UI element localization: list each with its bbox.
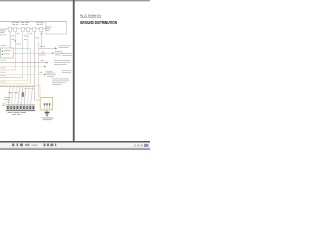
status bar background	[0, 143, 150, 148]
ground symbol G201	[45, 112, 50, 116]
label smudge mid	[39, 55, 53, 74]
splice knot S211	[22, 93, 25, 97]
wire: vertical drop 4 red	[27, 32, 29, 81]
connector C4 box	[26, 27, 29, 31]
pin bullet 2	[2, 54, 3, 55]
svg-text:GROUND DISTRIBUTION: GROUND DISTRIBUTION	[80, 20, 117, 25]
wire: vertical drop 3 black	[22, 32, 24, 78]
wire: feeder yellow 3	[0, 80, 28, 82]
connector C1 box	[9, 27, 12, 31]
junction dot	[15, 40, 17, 42]
wire into ground	[46, 110, 48, 112]
wire: drop 6 upper with elbow to splice arrow	[39, 32, 56, 49]
wire drops row1 to row2	[8, 87, 32, 105]
label under bus	[8, 112, 27, 115]
connector C5 box	[33, 27, 36, 31]
splice arrow S1	[55, 47, 57, 49]
label cluster right C	[54, 60, 71, 64]
label smudge in green box	[4, 50, 11, 54]
label under ground	[42, 118, 54, 121]
wire: feeder purple 2	[0, 86, 34, 88]
splice arrow S5 on yellow feeder 2	[44, 73, 46, 75]
wire: vertical drop 6 red long	[38, 42, 40, 98]
status bar right icons	[134, 144, 148, 147]
wire: top frame line	[0, 0, 150, 1]
wire: orange branch	[24, 88, 34, 90]
wire labels on drops	[8, 91, 18, 94]
wire: feeder red 2	[0, 77, 23, 79]
ground bus G200	[6, 110, 35, 112]
label smudges above connector row 1	[12, 22, 44, 25]
wire: vertical drop 5 black	[33, 32, 35, 100]
wire: feeder pink 1	[0, 69, 15, 71]
pin bullet 1	[2, 51, 3, 52]
wire: vertical drop 1 black	[9, 32, 11, 48]
label above green box	[1, 44, 7, 47]
connector C6 box	[40, 27, 43, 31]
label cluster right D	[62, 70, 72, 73]
splice arrow S2	[52, 52, 54, 54]
wire: feeder purple 1	[0, 62, 46, 64]
connector row 2 terminal strip	[7, 105, 35, 110]
connector C2 box	[14, 27, 17, 31]
left edge stub labels	[1, 60, 7, 82]
label cluster right A	[59, 45, 71, 48]
wire: green net from box to riser	[13, 49, 30, 84]
connector C3 box	[21, 27, 24, 31]
yellow box pin stems	[45, 105, 50, 110]
wire: feeder yellow 1	[0, 66, 44, 68]
wire: feeder yellow 2	[0, 74, 44, 76]
label smudge G200 left	[4, 97, 12, 100]
wire red elbow to ground box	[34, 99, 40, 101]
pin labels beside connector boxes	[7, 27, 45, 30]
label smudge left edge	[0, 29, 7, 33]
component G2 yellow highlighted box	[40, 98, 52, 111]
wire: vertical drop 2 red	[14, 32, 16, 70]
label cluster right E	[52, 79, 70, 85]
wire: feeder yellow 4	[0, 83, 30, 85]
wire: feeder yellow to G-box	[0, 86, 40, 99]
status bar left icons	[12, 144, 56, 147]
svg-text:Fig. 21: Grd Distr Circ: Fig. 21: Grd Distr Circ	[80, 14, 102, 18]
wire: vertical pane divider	[73, 0, 75, 142]
label cluster S5	[47, 73, 56, 77]
wire: branch from green box lower pin	[13, 52, 52, 54]
wire stub left	[0, 34, 7, 36]
component box top-right	[46, 22, 67, 35]
wire: top bus line of schematic	[0, 21, 67, 23]
wire gauge smudges near verticals	[11, 33, 43, 44]
label cluster S2	[55, 51, 63, 55]
component G1 green highlighted box	[0, 48, 13, 58]
small yellow connector top-left of strip	[7, 99, 10, 102]
wire: bottom frame line	[0, 141, 150, 143]
label smudge inside top-right box	[45, 27, 52, 31]
splice arrow S4 on yellow feeder	[44, 65, 46, 67]
splice arrow S3 on purple feeder	[46, 61, 48, 63]
label cluster right B	[61, 53, 72, 56]
terminal strip dark pins	[7, 106, 34, 109]
yellow box pins	[44, 103, 51, 105]
